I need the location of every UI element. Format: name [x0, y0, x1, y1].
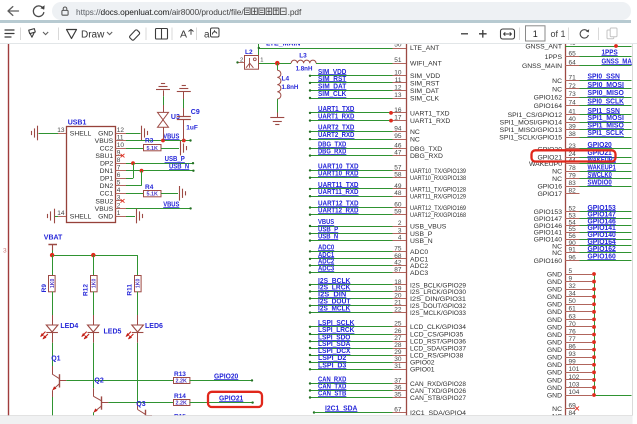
ground at USB1 pin14: [48, 209, 55, 224]
svg-text:GNSS_MAIN: GNSS_MAIN: [522, 63, 562, 70]
url text: [76, 7, 301, 17]
USB1 inside pin names: [70, 130, 114, 220]
svg-text:GPIO162: GPIO162: [534, 95, 563, 102]
browser top chrome: [0, 0, 637, 22]
resistor R14 2.2K: [174, 393, 254, 407]
wire Q2 emitter down: [93, 412, 95, 415]
svg-text:UART1_RXD: UART1_RXD: [410, 118, 450, 125]
wire USB_P net from DP2 pin8: [116, 163, 194, 165]
IC pin 50 LTE_ANT: [394, 41, 439, 52]
LED5: [81, 315, 121, 343]
svg-text:USB1: USB1: [68, 119, 87, 126]
svg-text:55: 55: [569, 226, 577, 233]
svg-text:12: 12: [117, 127, 125, 134]
svg-text:GND: GND: [547, 279, 562, 286]
wire net CAN_TXD to IC pin 36 (CAN_TXD/GPIO26): [309, 384, 466, 395]
IC pin 40 SPI1_MOSI/GPIO14 net SPI1_MOSI: [500, 115, 632, 126]
IC GND pin 63: [547, 313, 596, 324]
wire net CAN_RXD to IC pin 37 (CAN_RXD/GPIO28): [309, 377, 466, 388]
svg-text:GPIO164: GPIO164: [534, 103, 563, 110]
address bar pill: [52, 2, 631, 20]
svg-text:UART1_TXD: UART1_TXD: [318, 106, 354, 113]
svg-text:46: 46: [394, 142, 402, 149]
svg-text:4: 4: [398, 235, 402, 242]
svg-text:37: 37: [394, 377, 402, 384]
wire net UART11_TXD to IC pin 49 (UART11_TX/GPIO128): [309, 182, 466, 193]
svg-text:3: 3: [398, 228, 402, 235]
svg-text:1PPS: 1PPS: [545, 54, 563, 61]
svg-text:SPI0_MISO: SPI0_MISO: [588, 90, 625, 97]
svg-text:GPIO141: GPIO141: [534, 230, 563, 237]
svg-text:10: 10: [117, 142, 125, 149]
toc icon: [5, 30, 14, 37]
USB1 SBU1 pin9 stub NC: [116, 154, 125, 158]
ground at USB1 pin1: [137, 209, 143, 224]
svg-text:8: 8: [117, 157, 121, 164]
svg-text:19: 19: [394, 285, 402, 292]
wire net DBG_RXD to IC pin 47 (DBG_RXD): [309, 149, 443, 160]
svg-text:13: 13: [394, 92, 402, 99]
svg-text:R11: R11: [127, 284, 134, 296]
svg-text:GND: GND: [98, 130, 113, 137]
svg-text:LSPI_D2: LSPI_D2: [318, 355, 346, 362]
IC GND pin 32: [547, 283, 596, 294]
IC GND pin 104: [547, 389, 596, 400]
svg-text:SPI1_MOSI: SPI1_MOSI: [588, 115, 624, 122]
IC GND pin 86: [547, 344, 596, 355]
IC pin 39 SPI1_MISO/GPIO13 net SPI1_MISO: [500, 123, 632, 134]
IC pin 55 GPIO141 net GPIO141: [534, 225, 632, 236]
svg-text:1uF: 1uF: [186, 125, 198, 132]
svg-text:1K0: 1K0: [50, 278, 56, 288]
svg-text:GND: GND: [547, 317, 562, 324]
IC pin GNSS_ANT wire and junction: [525, 40, 631, 51]
IC pin 83 GPIO16 net SWDIO0: [537, 179, 631, 190]
svg-text:GNSS_ANT: GNSS_ANT: [525, 44, 562, 50]
svg-text:GPIO160: GPIO160: [534, 258, 563, 265]
svg-text:LED6: LED6: [145, 323, 163, 330]
inductor L4 1.8nH: [277, 63, 299, 99]
wire USB1 SHELL pin14 to ground: [55, 216, 66, 218]
wire drop to R12: [93, 255, 95, 275]
net label USB_P: [165, 156, 195, 164]
wire net CAN_STB to IC pin 35 (CAN_STB/GPIO27): [309, 391, 466, 402]
svg-text:87: 87: [394, 266, 402, 273]
svg-text:17: 17: [394, 115, 402, 122]
svg-text:GND: GND: [547, 287, 562, 294]
svg-text:GPIO17: GPIO17: [537, 191, 562, 198]
svg-text:VBAT: VBAT: [44, 235, 63, 242]
svg-text:103: 103: [569, 381, 580, 388]
svg-text:39: 39: [569, 123, 577, 130]
svg-text:GND: GND: [547, 332, 562, 339]
pdf toolbar: [0, 23, 637, 45]
wire net USB_N to IC pin 4 (USB_N): [309, 234, 433, 245]
svg-text:86: 86: [569, 344, 577, 351]
wire net UART11_RXD to IC pin 48 (UART11_RX/GPIO129): [309, 189, 466, 200]
svg-text:2.2K: 2.2K: [176, 379, 187, 385]
svg-text:WIFI_ANT: WIFI_ANT: [410, 61, 442, 68]
svg-text:GPIO16: GPIO16: [537, 184, 562, 191]
svg-text:83: 83: [569, 180, 577, 187]
wire R12 to LED5: [93, 292, 95, 316]
IC pin 82 GPIO17: [537, 188, 579, 199]
svg-text:11: 11: [395, 77, 402, 84]
svg-text:DBG_TXD: DBG_TXD: [410, 146, 442, 153]
svg-text:LSPI_SDA: LSPI_SDA: [318, 341, 350, 348]
highlight box around GPIO21 pin 24: [532, 150, 616, 161]
svg-text:GND: GND: [547, 294, 562, 301]
IC pin 65 1PPS net 1PPS: [545, 50, 632, 61]
svg-text:79: 79: [569, 173, 577, 180]
resistor R12 1K: [82, 276, 97, 296]
svg-text:SPI0_MOSI: SPI0_MOSI: [588, 82, 624, 89]
wire net SIM_DAT to IC pin 12 (SIM_DAT): [309, 84, 439, 95]
wire net LSPI_LRCK to IC pin 26 (LCD_CS/GPIO35): [309, 327, 464, 338]
GND bus vertical wire: [594, 274, 632, 396]
svg-text:UART11_TXD: UART11_TXD: [318, 182, 359, 189]
svg-text:40: 40: [569, 116, 577, 123]
svg-text:UART11_RXD: UART11_RXD: [318, 189, 359, 196]
wire net UART12_TXD to IC pin 60 (UART12_TX/GPIO169): [309, 201, 466, 212]
svg-text:NC: NC: [552, 169, 562, 176]
svg-text:50: 50: [394, 44, 402, 48]
svg-text:I2S_LRCK/GPIO30: I2S_LRCK/GPIO30: [410, 289, 466, 296]
svg-text:VBUS: VBUS: [318, 219, 334, 226]
wire net LSPI_SDA to IC pin 28 (LCD_SDA/GPIO37): [309, 341, 466, 352]
wire DN2 pin5 jog up: [116, 171, 142, 186]
USB1 pin numbers: [57, 127, 124, 217]
wire LED5 to Q2 collector: [93, 343, 95, 388]
junction DN2 join: [140, 169, 144, 173]
ground above C9: [177, 86, 191, 92]
IC GND pin 99: [547, 359, 596, 370]
svg-text:GND: GND: [547, 339, 562, 346]
junction VBAT R12: [91, 253, 95, 257]
wire net UART2_RXD to IC pin 95 (NC): [309, 132, 420, 143]
svg-text:36: 36: [394, 384, 402, 391]
svg-text:101: 101: [569, 366, 580, 373]
wire LED4 to Q1 collector: [52, 343, 54, 367]
wire net LSPI_SDO to IC pin 27 (LCD_RST/GPIO36): [309, 334, 466, 345]
junction VBAT R9: [50, 253, 54, 257]
svg-text:GND: GND: [547, 271, 562, 278]
IC U2 core-module left edge: [406, 44, 408, 416]
svg-text:DP2: DP2: [100, 161, 113, 168]
svg-text:77: 77: [569, 336, 577, 343]
svg-text:CC1: CC1: [100, 191, 114, 198]
IC GND pin 5: [547, 268, 596, 279]
svg-text:LSPI_LRCK: LSPI_LRCK: [318, 327, 354, 334]
connector USB1 body: [67, 119, 116, 222]
resistor R9 1K: [41, 276, 56, 293]
svg-text:SPI1_SCLK/GPIO15: SPI1_SCLK/GPIO15: [499, 134, 562, 141]
wire L3 to IC pin 51: [316, 63, 393, 65]
svg-text:GND: GND: [547, 355, 562, 362]
wire Q2 base to R14: [108, 402, 173, 404]
right scrollbar margin: [632, 44, 637, 424]
svg-text:67: 67: [394, 406, 402, 413]
wire L2 to L3: [259, 63, 291, 65]
IC NC pin 69: [552, 402, 579, 413]
wire net I2S_DIN to IC pin 20 (I2S_DIN/GPIO31): [309, 292, 466, 303]
svg-text:48: 48: [394, 190, 402, 197]
svg-text:23: 23: [569, 143, 577, 150]
svg-text:2: 2: [398, 220, 402, 227]
svg-text:GND: GND: [547, 324, 562, 331]
svg-text:94: 94: [394, 126, 402, 133]
IC pin 24 GPIO21 net GPIO21: [537, 150, 631, 161]
wire net VBUS to IC pin 2 (USB_VBUS): [309, 219, 447, 230]
USB1 SBU2 pin3 stub NC: [116, 199, 125, 203]
wire net UART10_RXD to IC pin 58 (UART10_RX/GPIO138): [309, 171, 466, 182]
svg-text:72: 72: [569, 83, 577, 90]
svg-text:SIM_RST: SIM_RST: [318, 76, 347, 83]
svg-text:SIM_CLK: SIM_CLK: [318, 91, 346, 98]
svg-text:USB_N: USB_N: [410, 238, 433, 245]
wire VBUS net from USB1 pin2: [116, 208, 191, 210]
svg-text:49: 49: [569, 44, 577, 47]
resistor R3 5.1K on CC2: [116, 138, 180, 153]
svg-text:5.1K: 5.1K: [147, 146, 158, 152]
ground under L4: [270, 118, 284, 125]
IC NC pin 84 (cut): [552, 410, 576, 421]
junction U3 on VBUS: [161, 139, 165, 143]
ground at USB1 pin13: [32, 126, 38, 141]
svg-text:73: 73: [569, 91, 577, 98]
junction node L4 tap: [275, 61, 280, 66]
svg-text:74: 74: [569, 99, 577, 106]
wire net ADC1 to IC pin 68 (ADC1): [309, 252, 429, 263]
svg-text:1K0: 1K0: [91, 278, 97, 288]
IC pin 90 NC net GPIO164: [552, 239, 631, 250]
svg-text:GND: GND: [547, 385, 562, 392]
svg-text:SBU1: SBU1: [95, 153, 113, 160]
svg-text:57: 57: [394, 164, 402, 171]
svg-text:70: 70: [569, 321, 577, 328]
junction C9 on VBUS: [182, 139, 186, 143]
svg-text:20: 20: [394, 292, 402, 299]
svg-text:104: 104: [569, 389, 580, 396]
svg-text:NC: NC: [410, 129, 420, 136]
svg-text:12: 12: [394, 84, 402, 91]
svg-text:63: 63: [569, 313, 577, 320]
IC pin 52 GPIO153 net GPIO153: [534, 205, 632, 216]
IC pin 64 GNSS_MAIN net GNSS_MAIN: [522, 59, 637, 70]
svg-text:of 1: of 1: [551, 29, 566, 39]
IC GND pin 77: [547, 336, 596, 347]
svg-text:GPIO02: GPIO02: [410, 359, 435, 366]
svg-text:LTE_ANT: LTE_ANT: [410, 45, 439, 52]
svg-text:L2: L2: [245, 49, 253, 56]
svg-text:I2S_MCLK/GPIO33: I2S_MCLK/GPIO33: [410, 310, 466, 317]
svg-text:75: 75: [394, 245, 402, 252]
svg-text:1: 1: [117, 210, 121, 217]
wire net I2S_LRCK to IC pin 19 (I2S_LRCK/GPIO30): [309, 285, 466, 296]
wire net I2S_BCLK to IC pin 18 (I2S_BCLK/GPIO29): [309, 278, 466, 289]
svg-text:64: 64: [569, 59, 577, 66]
svg-text:GND: GND: [547, 302, 562, 309]
svg-text:41: 41: [569, 109, 577, 116]
ground above U3: [156, 84, 170, 90]
wire net I2S_DOUT to IC pin 21 (I2S_DOUT/GPIO32): [309, 299, 466, 310]
svg-text:GND: GND: [98, 213, 113, 220]
svg-text:UART12_RX/GPIO168: UART12_RX/GPIO168: [410, 212, 466, 219]
svg-text:A: A: [180, 29, 187, 41]
IC GND pin 93: [547, 351, 596, 362]
wire net SIM_RST to IC pin 11 (SIM_RST): [309, 76, 440, 87]
svg-text:30: 30: [394, 356, 402, 363]
svg-text:LCD_RS/GPIO38: LCD_RS/GPIO38: [410, 352, 463, 359]
sheet row label 3: [3, 247, 7, 254]
book icon: [156, 29, 168, 40]
svg-text:LCD_CLK/GPIO34: LCD_CLK/GPIO34: [410, 324, 466, 331]
svg-text:22: 22: [394, 307, 402, 314]
svg-text:59: 59: [394, 209, 402, 216]
back arrow icon: [4, 3, 22, 19]
IC GND pin 102: [547, 374, 596, 385]
svg-text:50: 50: [569, 298, 577, 305]
wire net ADC0 to IC pin 75 (ADC0): [309, 244, 429, 255]
svg-text:R13: R13: [174, 371, 186, 378]
svg-text:UART10_TX/GPIO139: UART10_TX/GPIO139: [410, 168, 466, 175]
svg-text:32: 32: [569, 283, 577, 290]
svg-text:49: 49: [394, 183, 402, 190]
svg-text:a: a: [204, 30, 210, 41]
svg-text:SIM_VDD: SIM_VDD: [410, 73, 440, 80]
IC pin 72 NC net SPI0_MOSI: [552, 82, 631, 93]
IC GND pin 101: [547, 366, 596, 377]
svg-text:UART11_TX/GPIO128: UART11_TX/GPIO128: [410, 186, 466, 193]
svg-text:28: 28: [394, 342, 402, 349]
wire VBUS net from USB1 pin11: [116, 139, 192, 141]
svg-text:GND: GND: [547, 377, 562, 384]
ground after R4: [180, 186, 186, 201]
wire drop to R11: [137, 255, 139, 275]
svg-text:NC: NC: [552, 176, 562, 183]
svg-text:GND: GND: [547, 370, 562, 377]
wire L4 to ground: [277, 99, 279, 118]
wire net ADC3 to IC pin 87 (ADC3): [309, 266, 429, 277]
svg-text:R3: R3: [145, 138, 154, 145]
svg-text:47: 47: [394, 150, 402, 157]
IC pin 53 GPIO147 net GPIO147: [534, 212, 632, 223]
wire DP1 pin6 jog up: [116, 163, 134, 178]
wire net LSPI_D3 to IC pin 31 (GPIO01): [309, 362, 435, 373]
svg-text:R12: R12: [82, 284, 89, 296]
wire net UART1_RXD to IC pin 17 (UART1_RXD): [309, 114, 451, 125]
svg-text:UART1_TXD: UART1_TXD: [410, 110, 450, 117]
wire net DBG_TXD to IC pin 46 (DBG_TXD): [309, 141, 442, 152]
wire net USB_P to IC pin 3 (USB_P): [309, 227, 433, 238]
svg-text:I2S_DIN/GPIO31: I2S_DIN/GPIO31: [410, 296, 466, 303]
svg-text:10: 10: [394, 70, 402, 77]
IC pin 23 GPIO20 net GPIO20: [537, 142, 631, 153]
svg-text:GND: GND: [547, 362, 562, 369]
svg-text:5.1K: 5.1K: [147, 191, 158, 197]
svg-text:42: 42: [394, 259, 402, 266]
eraser icon: [130, 30, 140, 40]
net label VBUS upper: [163, 134, 179, 141]
resistor R15 label (cut): [174, 414, 186, 421]
svg-text:SPI1_SCLK: SPI1_SCLK: [588, 130, 624, 137]
svg-text:ADC2: ADC2: [410, 263, 428, 270]
IC GND pin 103: [547, 381, 596, 392]
wire net SIM_CLK to IC pin 13 (SIM_CLK): [309, 91, 440, 102]
svg-text:LED4: LED4: [60, 323, 78, 330]
svg-text:C9: C9: [191, 109, 200, 116]
svg-text:USB_P: USB_P: [410, 231, 433, 238]
transistor Q2: [93, 378, 108, 420]
right cluster: [461, 33, 468, 35]
svg-text:SPI1_MOSI/GPIO14: SPI1_MOSI/GPIO14: [500, 120, 563, 127]
svg-text:SHELL: SHELL: [70, 130, 92, 137]
svg-text:NC: NC: [552, 78, 562, 85]
wire USB1 GND pin1 to ground: [116, 216, 136, 218]
IC pin 96 GPIO160 net GPIO160: [534, 253, 632, 264]
IC GND pin 9: [547, 275, 596, 286]
svg-text:35: 35: [394, 391, 402, 398]
teal divider band: [0, 20, 631, 23]
wire Q1 base to R13: [66, 380, 173, 382]
svg-text:DN1: DN1: [100, 168, 114, 175]
wire net LSPI_D2 to IC pin 30 (GPIO02): [309, 355, 435, 366]
reload icon: [30, 3, 47, 19]
svg-text:CAN_TXD/GPIO26: CAN_TXD/GPIO26: [410, 388, 466, 395]
page bottom gray margin: [0, 416, 637, 424]
svg-text:14: 14: [57, 210, 65, 217]
svg-text:91: 91: [569, 247, 577, 254]
svg-text:Q1: Q1: [51, 355, 60, 362]
svg-text:65: 65: [569, 50, 577, 57]
IC U2 core-module right edge: [565, 44, 567, 416]
IC pin 54 GPIO146 net GPIO146: [534, 218, 632, 229]
IC pin 78 NC net WAKEUP1: [552, 164, 631, 175]
svg-text:LTE_MAIN: LTE_MAIN: [266, 44, 300, 48]
svg-text:60: 60: [394, 201, 402, 208]
svg-text:USB_P: USB_P: [165, 156, 185, 163]
lock icon: [59, 5, 71, 17]
svg-text:NC: NC: [410, 137, 420, 144]
wire net I2C1_SDA to IC pin 67 (I2C1_SDA/GPIO4): [313, 406, 466, 417]
svg-text:2.2K: 2.2K: [176, 401, 187, 407]
wire R9 to LED4: [52, 292, 54, 316]
junction DP1 join: [131, 161, 135, 165]
power flag VBAT: [44, 235, 63, 251]
svg-text:13: 13: [57, 127, 65, 134]
svg-text:LCD_CS/GPIO35: LCD_CS/GPIO35: [410, 331, 463, 338]
wire net LSPI_SCLK to IC pin 25 (LCD_CLK/GPIO34): [309, 320, 466, 331]
svg-text:69: 69: [569, 402, 577, 409]
wire net LSPI_DCX to IC pin 29 (LCD_RS/GPIO38): [309, 348, 464, 359]
svg-text:95: 95: [394, 133, 402, 140]
IC pin 38 SPI1_SCLK/GPIO15 net SPI1_SCLK: [499, 130, 631, 141]
svg-text:16: 16: [394, 107, 402, 114]
svg-text:76: 76: [569, 328, 577, 335]
highlight box around GPIO21 net label: [208, 392, 262, 407]
net label GPIO20: [214, 373, 238, 380]
IC pin 91 NC net GPIO162: [552, 246, 631, 257]
svg-text:UART11_RX/GPIO129: UART11_RX/GPIO129: [410, 194, 466, 201]
wire net UART10_TXD to IC pin 57 (UART10_TX/GPIO139): [309, 163, 466, 174]
svg-text:NC: NC: [552, 406, 562, 413]
capacitor C9 1uF: [177, 92, 200, 141]
resistor R11 1K: [127, 276, 142, 296]
IC GND pin 50: [547, 298, 596, 309]
svg-text:UART2_RXD: UART2_RXD: [318, 132, 354, 139]
svg-text:SPI1_MISO/GPIO13: SPI1_MISO/GPIO13: [500, 127, 563, 134]
svg-text:ADC0: ADC0: [410, 249, 428, 256]
